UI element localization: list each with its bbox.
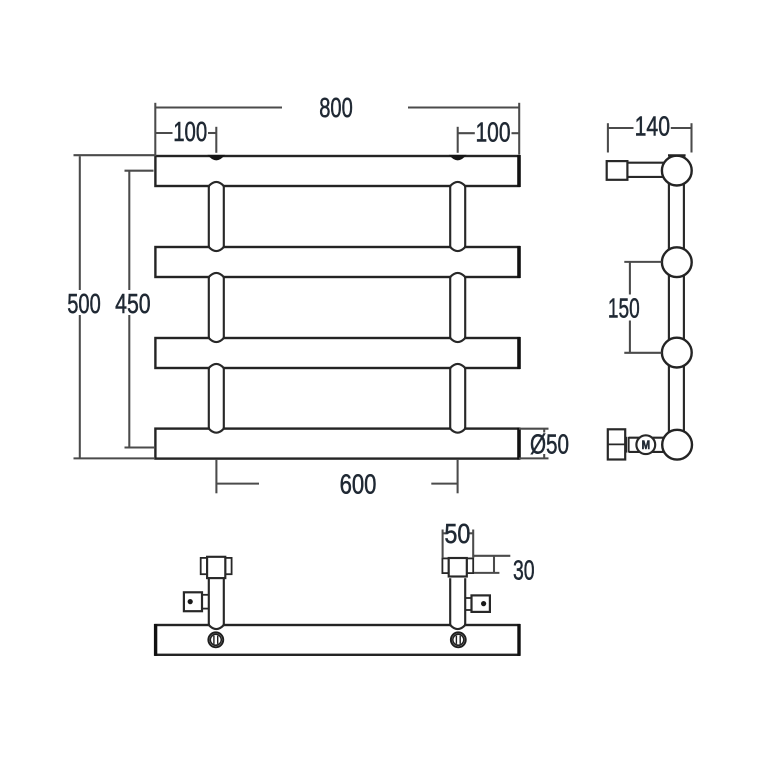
dimension 450 bbox=[125, 171, 156, 448]
svg-text:150: 150 bbox=[608, 293, 640, 324]
side view wall bracket (top) bbox=[607, 161, 628, 180]
right cap flange left bbox=[442, 558, 448, 573]
dimension 150 bbox=[624, 262, 661, 353]
bar 1 (top rail) bbox=[155, 155, 519, 187]
svg-text:100: 100 bbox=[476, 116, 511, 147]
right side bracket neck bbox=[465, 598, 471, 610]
svg-text:M: M bbox=[642, 438, 651, 452]
cap chord on circle 1 bbox=[668, 154, 686, 156]
side view rung circle 1 bbox=[662, 156, 692, 186]
bar 4 (bottom rail) bbox=[155, 428, 519, 460]
svg-text:Ø50: Ø50 bbox=[530, 428, 569, 459]
wire right post segment 2 bbox=[450, 277, 465, 338]
wire left post segment 3 bbox=[209, 368, 224, 429]
right cap body bbox=[449, 558, 467, 577]
side view rung circle 2 bbox=[662, 247, 692, 277]
left side bracket neck bbox=[202, 595, 209, 609]
side view valve bracket (bottom) bbox=[608, 429, 625, 459]
valve circle with M bbox=[636, 435, 655, 454]
valve threads bbox=[627, 437, 629, 453]
left cap flange right bbox=[225, 558, 231, 574]
tube joint arcs: bar4 top bbox=[209, 427, 465, 433]
right side bracket bbox=[472, 595, 490, 612]
wire right post segment 3 bbox=[450, 368, 465, 429]
dimension 100 right bbox=[458, 127, 519, 153]
side view top horizontal tube bbox=[627, 163, 672, 177]
svg-text:600: 600 bbox=[340, 469, 377, 500]
dimension D50 (bar diameter) bbox=[519, 429, 549, 459]
tube joint arcs: bar3 top bbox=[209, 336, 465, 342]
dimension 30 (bottom view) bbox=[473, 556, 510, 573]
tube joint arcs: bar1 bottom bbox=[209, 182, 465, 188]
bar 3 (rail) bbox=[155, 337, 519, 369]
right bracket dot bbox=[481, 601, 486, 606]
svg-text:30: 30 bbox=[513, 555, 535, 586]
dimension 500 bbox=[74, 155, 156, 458]
dimension 50 (bottom view) bbox=[443, 530, 474, 559]
bar 2 (rail) bbox=[155, 246, 519, 278]
left bracket dot bbox=[188, 599, 193, 604]
left screw mark on bar bbox=[208, 632, 223, 647]
left cap flange left bbox=[201, 558, 207, 574]
tube joint arcs: bar2 top bbox=[209, 245, 465, 251]
dimension 800 line bbox=[155, 103, 519, 156]
bottom view bar bbox=[156, 624, 520, 656]
svg-text:140: 140 bbox=[635, 111, 670, 142]
arrow on bar1 top at right post bbox=[449, 155, 467, 161]
tube joint arcs: bar2 bottom bbox=[209, 273, 465, 279]
tube joint arcs: bar3 bottom bbox=[209, 364, 465, 370]
side view rung circle 4 bbox=[662, 430, 692, 460]
svg-text:100: 100 bbox=[173, 116, 207, 147]
bottom view left post tube bbox=[209, 578, 224, 625]
dimension 140 bbox=[608, 123, 692, 152]
tube joint arcs on bottom bar bbox=[209, 623, 465, 629]
valve horizontal tube bbox=[629, 438, 665, 452]
wire left post segment 2 bbox=[209, 277, 224, 338]
svg-text:450: 450 bbox=[115, 288, 151, 319]
left side bracket bbox=[184, 592, 202, 611]
wire right post segment 1 bbox=[450, 186, 465, 247]
dimension 600 bbox=[216, 459, 457, 493]
left cap body bbox=[207, 557, 225, 578]
dimension 100 left bbox=[155, 127, 216, 153]
side view rung circle 3 bbox=[662, 338, 692, 368]
svg-text:50: 50 bbox=[444, 518, 470, 549]
right screw mark on bar bbox=[451, 632, 466, 647]
svg-text:800: 800 bbox=[319, 92, 353, 123]
right cap flange right bbox=[467, 558, 473, 573]
arrow on bar1 top at left post bbox=[207, 155, 225, 161]
bottom view right post tube bbox=[450, 578, 465, 625]
svg-text:500: 500 bbox=[67, 288, 101, 319]
wire left post segment 1 bbox=[209, 186, 224, 247]
side view vertical tube bbox=[669, 171, 684, 444]
